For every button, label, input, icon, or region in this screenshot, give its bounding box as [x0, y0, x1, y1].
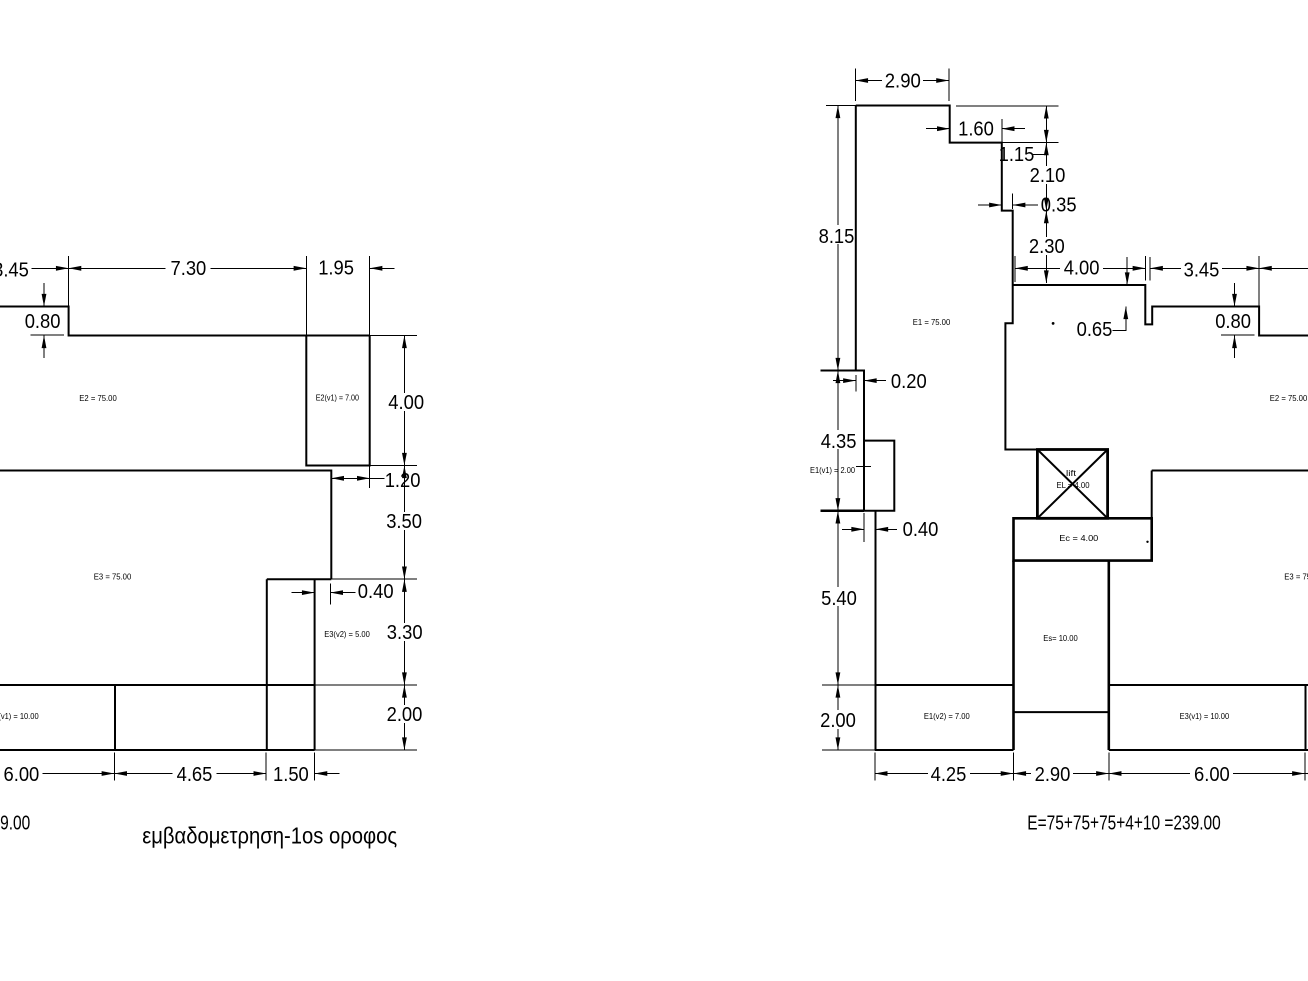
- left plan (1st floor), right portion visible: [0, 69, 428, 849]
- right plan (same template), left portion visible: [810, 69, 1308, 849]
